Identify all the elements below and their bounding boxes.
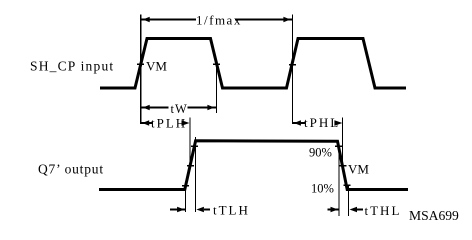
svg-text:VM: VM: [146, 59, 167, 74]
svg-text:VM: VM: [348, 162, 369, 177]
svg-text:tPLH: tPLH: [151, 116, 187, 131]
svg-text:SH_CP input: SH_CP input: [30, 59, 114, 74]
svg-text:tTHL: tTHL: [365, 203, 402, 218]
svg-text:1/fmax: 1/fmax: [196, 13, 242, 28]
svg-text:tPHL: tPHL: [304, 115, 340, 130]
svg-text:90%: 90%: [309, 146, 332, 160]
svg-text:tW: tW: [171, 102, 188, 116]
svg-text:Q7’ output: Q7’ output: [38, 162, 104, 177]
svg-text:10%: 10%: [311, 182, 334, 196]
svg-text:MSA699: MSA699: [409, 208, 459, 223]
svg-text:tTLH: tTLH: [213, 203, 250, 218]
